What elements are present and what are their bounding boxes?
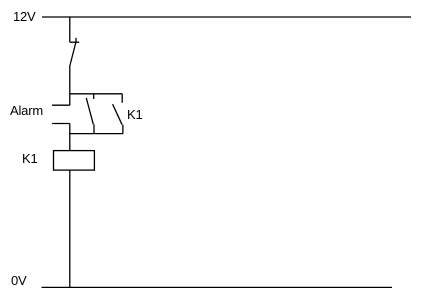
switch label Alarm bbox=[10, 104, 43, 117]
contact K1 top stub bbox=[121, 94, 123, 103]
contact label K1 bbox=[127, 108, 143, 121]
net label 0V bbox=[11, 274, 27, 287]
top bar of parallel contacts bbox=[70, 93, 123, 95]
wire from coil K1 to 0V rail bbox=[69, 170, 71, 287]
contact 1 bottom stub bbox=[93, 124, 95, 133]
net label 12V bbox=[13, 10, 36, 23]
coil label K1 bbox=[22, 152, 38, 165]
wire from switch S1 to node A bbox=[69, 66, 71, 105]
relay coil K1 bbox=[54, 151, 95, 171]
contact K1 blade bbox=[113, 104, 123, 125]
wire from 12V rail to switch S1 bbox=[69, 17, 71, 42]
contact K1 bottom stub bbox=[122, 125, 124, 134]
Alarm switch upper terminal bbox=[52, 104, 70, 106]
contact 1 top stub bbox=[93, 94, 95, 99]
wire from Alarm switch to coil K1 bbox=[69, 124, 71, 151]
switch S1 fixed contact bar bbox=[70, 41, 79, 43]
switch S1 blade bbox=[70, 43, 76, 67]
Alarm switch lower terminal bbox=[52, 123, 70, 125]
switch S1 actuator tick bbox=[75, 38, 77, 43]
bottom bar of parallel contacts bbox=[69, 133, 123, 135]
contact 1 blade bbox=[86, 98, 93, 124]
0V supply rail bbox=[42, 286, 393, 288]
12V supply rail bbox=[42, 16, 411, 18]
